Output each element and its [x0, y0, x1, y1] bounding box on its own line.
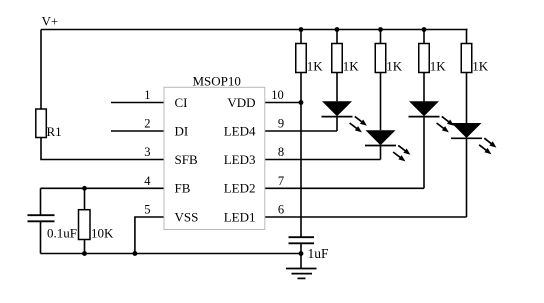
wire: pin 10 VDD to bus [265, 102, 301, 104]
svg-text:VSS: VSS [175, 209, 199, 224]
LED D1 [322, 101, 353, 116]
svg-text:4: 4 [144, 174, 151, 188]
wire: LED D3 cathode to pin 7 [423, 117, 425, 189]
node: rail junction at R5 [422, 27, 427, 32]
node: FB / 10K junction [82, 186, 87, 191]
svg-text:1K: 1K [307, 59, 324, 74]
wire: R6 top leg from rail corner [467, 30, 468, 44]
wire: LED D1 cathode to pin 9 [336, 117, 338, 132]
svg-text:7: 7 [278, 174, 284, 188]
svg-text:LED2: LED2 [224, 181, 256, 196]
wire: R5 bottom to LED D3 [423, 73, 425, 102]
node: rail junction at R4 [378, 27, 383, 32]
svg-text:FB: FB [175, 181, 191, 196]
svg-text:1K: 1K [472, 59, 489, 74]
wire: pin 9 LED4 net [265, 130, 337, 132]
svg-text:1K: 1K [386, 59, 403, 74]
wire: C 0.1uF bottom leg [40, 222, 42, 254]
svg-text:DI: DI [175, 123, 189, 138]
svg-text:R1: R1 [47, 124, 62, 139]
svg-text:6: 6 [278, 203, 284, 217]
LED D4 light arrows [479, 138, 496, 154]
svg-text:LED1: LED1 [224, 209, 256, 224]
svg-text:LED4: LED4 [224, 123, 256, 138]
wire: ground stem [300, 254, 302, 269]
capacitor C1 0.1uF [28, 215, 77, 240]
wire: C 1uF bottom leg [300, 244, 302, 254]
LED D2 [365, 130, 396, 145]
svg-text:MSOP10: MSOP10 [193, 73, 241, 88]
LED D3 light arrows [437, 116, 454, 132]
node: ground rail / VSS junction [133, 251, 138, 256]
resistor R7 10K [79, 210, 115, 241]
LED D4 [451, 123, 482, 138]
op-amp U1 MSOP10 body [164, 73, 265, 229]
svg-text:10K: 10K [91, 226, 114, 241]
wire: bottom ground rail [41, 253, 302, 255]
capacitor C2 1uF [289, 237, 330, 261]
node: ground rail / 10K junction [82, 251, 87, 256]
wire: V+ top rail [41, 29, 468, 31]
svg-text:SFB: SFB [175, 152, 198, 167]
svg-text:2: 2 [144, 117, 150, 131]
wire: R5 top leg [423, 30, 425, 44]
wire: R3 bottom to LED D1 [336, 73, 338, 102]
resistor R2 1K [296, 44, 324, 74]
node: ground rail / C2 junction [299, 251, 304, 256]
wire: VDD bus vertical [300, 103, 302, 237]
wire: bus to C 1uF [300, 236, 302, 239]
wire: R6 bottom to LED D4 [466, 73, 468, 124]
wire: V+ down to R1 [40, 30, 42, 110]
wire: pin 6 LED1 net [265, 216, 467, 218]
wire: R2 top leg [300, 30, 302, 44]
wire: pin 2 stub [111, 130, 164, 132]
node: rail junction at R3 [335, 27, 340, 32]
wire: 10K top leg [84, 188, 86, 209]
resistor R5 1K [419, 44, 447, 74]
svg-text:10: 10 [271, 88, 284, 102]
svg-text:1: 1 [144, 88, 150, 102]
svg-text:1K: 1K [343, 59, 360, 74]
node: pin 10 VDD junction [299, 100, 304, 105]
wire: LED D4 cathode to pin 6 [466, 138, 468, 217]
resistor R4 1K [375, 44, 403, 74]
wire: pin 8 LED3 net [265, 159, 381, 161]
node: rail junction at R2 [299, 27, 304, 32]
LED D1 light arrows [350, 116, 367, 132]
LED D2 light arrows [393, 145, 410, 161]
wire: R4 bottom to LED D2 [380, 73, 382, 131]
svg-text:LED3: LED3 [224, 152, 256, 167]
svg-text:8: 8 [278, 145, 284, 159]
wire: pin 4 FB net [41, 187, 165, 189]
resistor R3 1K [332, 44, 360, 74]
wire: pin 5 VSS down to ground rail [135, 217, 164, 254]
wire: R2 bottom to pin10 node [300, 73, 302, 103]
svg-text:3: 3 [144, 145, 150, 159]
wire: 10K bottom leg [84, 240, 86, 254]
wire: R1 bottom to pin 3 SFB [41, 138, 164, 160]
svg-text:1uF: 1uF [308, 246, 330, 261]
wire: R3 top leg [336, 30, 338, 44]
wire: pin 1 stub [111, 102, 164, 104]
wire: pin 7 LED2 net [265, 187, 424, 189]
svg-text:CI: CI [175, 95, 188, 110]
svg-text:1K: 1K [430, 59, 447, 74]
svg-text:VDD: VDD [227, 95, 255, 110]
svg-text:V+: V+ [42, 14, 59, 29]
wire: LED D2 cathode to pin 8 [380, 146, 382, 160]
svg-text:0.1uF: 0.1uF [47, 226, 77, 241]
wire: R4 top leg [380, 30, 382, 44]
svg-text:9: 9 [278, 117, 284, 131]
LED D3 [409, 101, 440, 116]
resistor R6 1K [461, 44, 489, 74]
wire: FB net down to C 0.1uF [40, 188, 42, 214]
resistor R1 [36, 109, 62, 139]
ground [286, 269, 317, 279]
svg-text:5: 5 [144, 203, 150, 217]
